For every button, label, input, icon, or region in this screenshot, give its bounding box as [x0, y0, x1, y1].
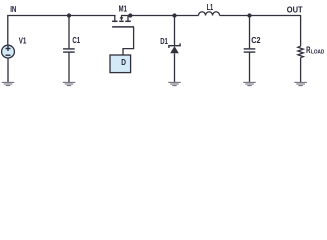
- wire C2 top lead: [249, 16, 251, 49]
- wire D1 top lead: [174, 16, 176, 46]
- svg-text:D1: D1: [160, 36, 168, 46]
- svg-text:LOAD: LOAD: [311, 50, 324, 56]
- wire C2 bottom lead: [249, 52, 251, 82]
- label C1: [72, 35, 80, 45]
- ground under D1: [168, 82, 181, 85]
- wire top rail right segment with OUT corner: [220, 16, 301, 47]
- svg-text:C2: C2: [251, 35, 261, 45]
- wire M1 gate lead to driver: [123, 27, 134, 55]
- node label OUT: [287, 5, 304, 15]
- ground under RLOAD: [294, 82, 307, 85]
- svg-text:IN: IN: [10, 4, 16, 14]
- voltage source V1: [2, 45, 15, 58]
- svg-text:OUT: OUT: [287, 5, 304, 15]
- diode D1 schottky: [169, 43, 180, 53]
- driver box D: [110, 55, 131, 73]
- label RLOAD: [306, 45, 324, 55]
- inductor L1: [199, 12, 220, 16]
- wire V1 bottom lead: [7, 58, 9, 82]
- wire top rail mid segment: [121, 15, 199, 17]
- node label IN: [10, 4, 16, 14]
- wire C1 bottom lead: [68, 52, 70, 82]
- capacitor C1: [63, 49, 75, 52]
- svg-text:M1: M1: [119, 3, 128, 13]
- svg-text:L1: L1: [207, 2, 214, 12]
- ground under V1: [2, 82, 15, 85]
- svg-text:C1: C1: [72, 35, 80, 45]
- transistor M1: [112, 16, 134, 27]
- label L1: [207, 2, 214, 12]
- wire C1 top lead: [68, 16, 70, 49]
- label D inside driver box: [121, 58, 126, 67]
- node junction dot C2 tap: [247, 13, 251, 17]
- svg-text:D: D: [121, 58, 126, 67]
- label C2: [251, 35, 261, 45]
- node junction dot D1 tap: [172, 13, 176, 17]
- wire D1 bottom lead: [174, 53, 176, 82]
- capacitor C2: [244, 49, 256, 52]
- ground under C2: [243, 82, 256, 85]
- wire top rail left segment with IN corner: [8, 16, 116, 46]
- wire RLOAD bottom lead: [300, 58, 302, 82]
- resistor RLOAD: [298, 46, 303, 58]
- node junction dot C1 tap: [67, 13, 71, 17]
- label M1: [119, 3, 128, 13]
- svg-text:V1: V1: [19, 36, 27, 46]
- ground under C1: [63, 82, 76, 85]
- label D1: [160, 36, 168, 46]
- node junction dot M1 source: [128, 13, 132, 17]
- label V1: [19, 36, 27, 46]
